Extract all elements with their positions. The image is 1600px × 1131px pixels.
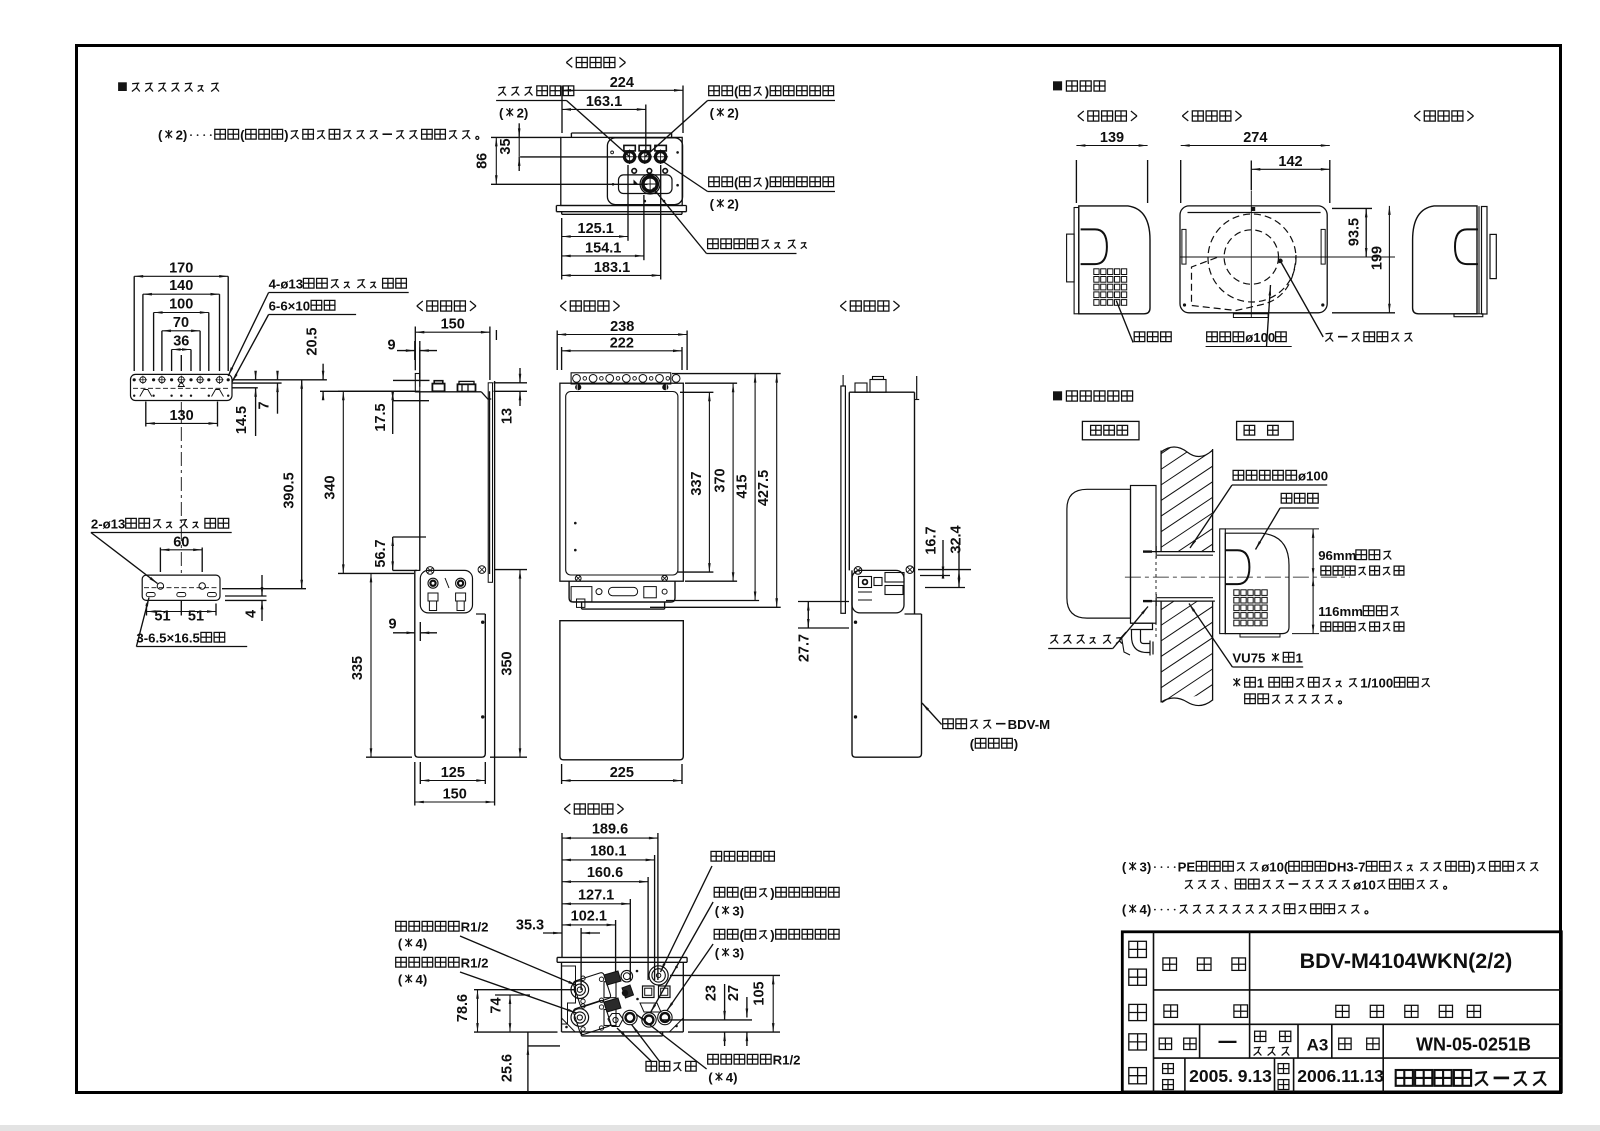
svg-text:125.1: 125.1 bbox=[578, 221, 614, 237]
svg-text:ø10: ø10 bbox=[1353, 877, 1376, 892]
svg-text:9: 9 bbox=[387, 338, 395, 354]
svg-text:170: 170 bbox=[169, 260, 193, 276]
svg-text:4): 4) bbox=[1140, 902, 1152, 917]
svg-text:100: 100 bbox=[169, 297, 193, 313]
svg-text:(: ( bbox=[398, 936, 403, 951]
svg-text:340: 340 bbox=[323, 475, 339, 499]
svg-text:3): 3) bbox=[732, 946, 744, 961]
svg-text:199: 199 bbox=[1370, 246, 1386, 270]
svg-text:ø100: ø100 bbox=[1245, 330, 1275, 345]
svg-text:R1/2: R1/2 bbox=[773, 1053, 801, 1068]
svg-text:(: ( bbox=[1122, 902, 1127, 917]
svg-text:27.7: 27.7 bbox=[796, 634, 812, 662]
svg-text:R1/2: R1/2 bbox=[461, 920, 489, 935]
svg-text:(: ( bbox=[970, 737, 975, 752]
svg-text:2): 2) bbox=[727, 197, 739, 212]
svg-text:): ) bbox=[1471, 860, 1475, 875]
svg-text:139: 139 bbox=[1100, 130, 1124, 146]
svg-text:78.6: 78.6 bbox=[455, 994, 471, 1022]
svg-text:2): 2) bbox=[727, 106, 739, 121]
svg-text:3): 3) bbox=[1140, 860, 1152, 875]
svg-text:183.1: 183.1 bbox=[594, 260, 630, 276]
svg-text:51: 51 bbox=[154, 609, 170, 625]
svg-text:127.1: 127.1 bbox=[578, 887, 614, 903]
svg-text:222: 222 bbox=[610, 336, 634, 352]
svg-text:25.6: 25.6 bbox=[500, 1054, 516, 1082]
svg-text:51: 51 bbox=[188, 609, 204, 625]
svg-text:DH3-7: DH3-7 bbox=[1327, 860, 1365, 875]
svg-text:93.5: 93.5 bbox=[1347, 218, 1363, 246]
svg-text:335: 335 bbox=[350, 656, 366, 680]
svg-text:102.1: 102.1 bbox=[571, 908, 607, 924]
svg-text:189.6: 189.6 bbox=[592, 822, 628, 838]
svg-text:415: 415 bbox=[735, 474, 751, 498]
svg-text:2): 2) bbox=[176, 128, 188, 143]
svg-text:(: ( bbox=[499, 106, 504, 121]
svg-text:(: ( bbox=[710, 106, 715, 121]
svg-text:370: 370 bbox=[713, 468, 729, 492]
svg-text:160.6: 160.6 bbox=[587, 865, 623, 881]
svg-text:(: ( bbox=[398, 972, 403, 987]
svg-text:70: 70 bbox=[173, 315, 189, 331]
svg-text:32.4: 32.4 bbox=[949, 525, 965, 553]
svg-text:4): 4) bbox=[416, 972, 428, 987]
svg-text:16.7: 16.7 bbox=[923, 526, 939, 554]
svg-text:274: 274 bbox=[1243, 130, 1267, 146]
svg-text:(: ( bbox=[734, 175, 739, 190]
svg-text:WN-05-0251B: WN-05-0251B bbox=[1416, 1035, 1531, 1055]
svg-text:60: 60 bbox=[173, 535, 189, 551]
svg-text:BDV-M: BDV-M bbox=[1008, 717, 1051, 732]
svg-text:35.3: 35.3 bbox=[516, 918, 544, 934]
svg-text:): ) bbox=[770, 886, 774, 901]
svg-text:6-6×10: 6-6×10 bbox=[269, 299, 310, 314]
svg-text:BDV-M4104WKN(2/2): BDV-M4104WKN(2/2) bbox=[1300, 949, 1513, 973]
svg-text:150: 150 bbox=[441, 317, 465, 333]
svg-text:105: 105 bbox=[752, 981, 768, 1005]
svg-text:(: ( bbox=[1122, 860, 1127, 875]
svg-text:154.1: 154.1 bbox=[585, 241, 621, 257]
svg-text:): ) bbox=[284, 128, 288, 143]
svg-text:1: 1 bbox=[1257, 676, 1264, 691]
svg-text:86: 86 bbox=[475, 153, 491, 169]
svg-text:): ) bbox=[765, 175, 769, 190]
svg-text:337: 337 bbox=[689, 471, 705, 495]
svg-text:238: 238 bbox=[610, 319, 634, 335]
svg-text:(: ( bbox=[740, 928, 745, 943]
svg-text:140: 140 bbox=[169, 278, 193, 294]
svg-text:(: ( bbox=[715, 946, 720, 961]
svg-text:350: 350 bbox=[500, 651, 516, 675]
svg-text:4): 4) bbox=[416, 936, 428, 951]
svg-text:74: 74 bbox=[489, 997, 505, 1013]
svg-text:27: 27 bbox=[726, 985, 742, 1001]
svg-text:56.7: 56.7 bbox=[373, 539, 389, 567]
svg-text:142: 142 bbox=[1278, 154, 1302, 170]
svg-text:PE: PE bbox=[1178, 860, 1196, 875]
svg-text:): ) bbox=[770, 928, 774, 943]
svg-text:2005. 9.13: 2005. 9.13 bbox=[1189, 1066, 1272, 1086]
svg-text:3-6.5×16.5: 3-6.5×16.5 bbox=[136, 631, 199, 646]
svg-text:36: 36 bbox=[173, 334, 189, 350]
svg-text:4): 4) bbox=[726, 1070, 738, 1085]
svg-text:A3: A3 bbox=[1307, 1036, 1329, 1055]
svg-text:9: 9 bbox=[388, 617, 396, 633]
svg-text:(: ( bbox=[715, 904, 720, 919]
svg-text:427.5: 427.5 bbox=[756, 470, 772, 506]
svg-text:13: 13 bbox=[500, 408, 516, 424]
svg-text:390.5: 390.5 bbox=[282, 472, 298, 508]
svg-text:4: 4 bbox=[244, 610, 260, 618]
svg-text:125: 125 bbox=[441, 765, 465, 781]
svg-text:(: ( bbox=[710, 197, 715, 212]
svg-text:20.5: 20.5 bbox=[305, 327, 321, 355]
svg-text:3): 3) bbox=[732, 904, 744, 919]
svg-text:): ) bbox=[765, 84, 769, 99]
svg-text:): ) bbox=[1014, 737, 1018, 752]
svg-text:35: 35 bbox=[498, 138, 514, 154]
svg-text:VU75: VU75 bbox=[1232, 651, 1265, 666]
svg-text:ø10(: ø10( bbox=[1261, 860, 1289, 875]
svg-text:150: 150 bbox=[443, 787, 467, 803]
svg-text:23: 23 bbox=[704, 985, 720, 1001]
svg-text:R1/2: R1/2 bbox=[461, 956, 489, 971]
svg-text:225: 225 bbox=[610, 765, 634, 781]
svg-text:116mm: 116mm bbox=[1318, 604, 1363, 619]
svg-text:2): 2) bbox=[517, 106, 529, 121]
svg-text:2-ø13: 2-ø13 bbox=[91, 517, 125, 532]
svg-text:(: ( bbox=[708, 1070, 713, 1085]
svg-text:224: 224 bbox=[610, 75, 634, 91]
svg-text:14.5: 14.5 bbox=[234, 406, 250, 434]
svg-text:7: 7 bbox=[257, 401, 273, 409]
svg-text:1/100: 1/100 bbox=[1360, 676, 1393, 691]
svg-text:(: ( bbox=[158, 128, 163, 143]
svg-text:96mm: 96mm bbox=[1318, 548, 1356, 563]
svg-text:17.5: 17.5 bbox=[373, 403, 389, 431]
svg-text:4-ø13: 4-ø13 bbox=[269, 277, 303, 292]
svg-text:180.1: 180.1 bbox=[590, 843, 626, 859]
svg-text:(: ( bbox=[740, 886, 745, 901]
svg-text:(: ( bbox=[240, 128, 245, 143]
svg-text:(: ( bbox=[734, 84, 739, 99]
svg-text:1: 1 bbox=[1296, 651, 1303, 666]
svg-text:2006.11.13: 2006.11.13 bbox=[1297, 1066, 1384, 1086]
svg-text:ø100: ø100 bbox=[1298, 469, 1328, 484]
svg-text:163.1: 163.1 bbox=[586, 94, 622, 110]
